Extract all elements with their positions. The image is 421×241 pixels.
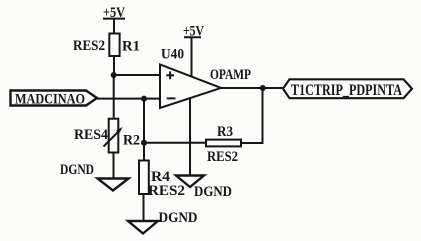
ground DGND (below R4): [128, 210, 198, 234]
ground DGND (op-amp supply): [176, 176, 232, 201]
wire R1 to node A: [113, 56, 115, 75]
resistor R3: [206, 124, 241, 165]
svg-text:R1: R1: [122, 39, 140, 55]
wire R3 to output branch: [241, 88, 263, 143]
svg-text:RES2: RES2: [207, 149, 238, 165]
wire node A down to R2 (crosses MADCINAO net): [113, 75, 115, 119]
svg-text:MADCINAO: MADCINAO: [15, 92, 85, 108]
wire R4 to ground: [143, 194, 145, 221]
wire op-amp V- pin to ground (crosses feedback): [189, 98, 191, 176]
svg-text:R2: R2: [123, 133, 140, 149]
svg-text:OPAMP: OPAMP: [210, 67, 251, 83]
node B (- input junction): [141, 96, 147, 102]
svg-text:U40: U40: [161, 47, 184, 63]
svg-text:T1CTRIP_PDPINTA: T1CTRIP_PDPINTA: [291, 82, 402, 99]
svg-text:DGND: DGND: [60, 162, 94, 178]
svg-text:RES2: RES2: [148, 183, 185, 199]
node A (divider / +input junction): [111, 72, 117, 78]
power +5V (R1 pull-up): [103, 5, 125, 21]
svg-text:RES4: RES4: [74, 127, 108, 143]
power +5V (op-amp supply): [183, 24, 204, 40]
wire +5V to R1: [113, 19, 115, 34]
wire R2 to ground: [113, 153, 115, 179]
wire feedback to R3: [144, 142, 206, 144]
wire node A to op-amp + input: [114, 74, 160, 76]
potentiometer R2: [74, 119, 140, 153]
wire MADCINAO to op-amp - input: [97, 98, 160, 100]
net flag MADCINAO: [11, 91, 98, 108]
node D (output junction): [260, 85, 266, 91]
svg-text:R3: R3: [217, 124, 233, 140]
node C (feedback junction): [141, 140, 147, 146]
ground DGND (below R2): [60, 162, 129, 191]
svg-text:RES2: RES2: [73, 38, 105, 54]
svg-text:DGND: DGND: [194, 184, 232, 200]
net flag T1CTRIP_PDPINTA: [283, 79, 412, 99]
wire +5V to op-amp V+ pin: [191, 37, 193, 76]
svg-text:DGND: DGND: [159, 210, 198, 226]
resistor R1: [73, 34, 140, 57]
op-amp U40: [160, 47, 251, 109]
wire node B down to R4 and feedback: [143, 99, 145, 161]
wire op-amp output: [221, 87, 283, 89]
resistor R4: [139, 161, 185, 200]
